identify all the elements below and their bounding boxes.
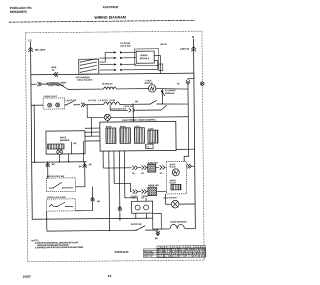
svg-text:5995208875: 5995208875: [10, 10, 28, 14]
svg-text:BK: BK: [89, 164, 93, 166]
svg-text:FGF379CE: FGF379CE: [103, 5, 119, 9]
connector on door switch line: [129, 108, 135, 112]
svg-text:CLOCK: CLOCK: [131, 196, 139, 198]
svg-text:OVEN LAMPS 40W: OVEN LAMPS 40W: [88, 99, 116, 102]
wire selector to connectors: [100, 52, 114, 70]
relay K4: [148, 128, 158, 143]
switch on Y2: [136, 226, 158, 231]
svg-text:OVEN SENSOR: OVEN SENSOR: [170, 222, 186, 224]
svg-text:12: 12: [108, 274, 112, 278]
switch light: [65, 101, 81, 105]
wire valve to N: [186, 165, 194, 167]
wire spark module out: [154, 56, 160, 74]
connector chevron N tap: [186, 80, 190, 84]
relay K3: [134, 126, 144, 143]
switch inside box2: [49, 202, 73, 206]
wire latch out right: [75, 187, 92, 211]
svg-text:BK: BK: [155, 238, 159, 240]
svg-text:BK: BK: [141, 173, 144, 175]
svg-text:MODULE: MODULE: [140, 58, 150, 60]
wire coil to motor: [116, 88, 148, 90]
svg-text:DOOR LOCK SW: DOOR LOCK SW: [47, 176, 65, 178]
svg-text:SW & VALVES: SW & VALVES: [77, 79, 92, 82]
wire lamp line right: [120, 103, 150, 105]
connector P1: [37, 82, 41, 86]
svg-text:BK: BK: [132, 173, 135, 175]
oven light dashed box: [43, 98, 65, 109]
svg-text:MOB: MOB: [51, 67, 57, 69]
junction dots lower bus: [47, 161, 48, 162]
wires below control box: [103, 151, 138, 231]
svg-text:120V W: 120V W: [180, 48, 190, 51]
connector chevron v1: [46, 163, 50, 167]
wire clock drops: [136, 213, 147, 218]
svg-text:BAKE: BAKE: [60, 136, 67, 139]
svg-text:SPARK: SPARK: [140, 54, 148, 57]
connector P2 on bus: [54, 72, 58, 76]
clock box: [132, 201, 153, 213]
ignitor circle: [57, 149, 63, 155]
junction Y2 control drop: [109, 230, 110, 231]
svg-text:BK-W: BK-W: [161, 44, 168, 46]
connector circle junction: [104, 114, 110, 120]
connector chevrons B1: [133, 190, 138, 194]
motor M1 circle: [148, 85, 155, 92]
connector chevrons B2: [141, 190, 146, 194]
wire control left stubs: [85, 118, 100, 141]
bake ignitor hatched square: [148, 164, 156, 172]
svg-text:BK: BK: [97, 201, 101, 203]
switch selector block: [79, 59, 99, 75]
wire Y2 door switch line: [47, 229, 136, 232]
svg-text:P2: P2: [52, 70, 55, 72]
wire clock feed stubs: [138, 198, 147, 202]
wire control right out: [176, 148, 194, 150]
svg-text:316001143: 316001143: [115, 250, 129, 254]
electronic oven control box: [100, 121, 176, 151]
wire door lock feed 1: [47, 162, 49, 178]
connector chevron A3: [160, 165, 165, 169]
broil valve solenoid box: [171, 184, 181, 190]
relay K2: [120, 126, 131, 143]
sensor coils: [170, 224, 184, 229]
bake burner box: [46, 131, 85, 154]
svg-text:DOOR SW: DOOR SW: [131, 224, 143, 226]
svg-text:BK: BK: [74, 143, 78, 145]
svg-text:BK: BK: [79, 166, 83, 168]
coil OL relay: [103, 87, 116, 89]
wire second rail: [33, 105, 36, 162]
lamp DS2: [56, 103, 60, 107]
svg-text:L1: L1: [29, 38, 33, 42]
connector chevron stub: [156, 229, 160, 236]
svg-text:BK: BK: [52, 164, 56, 166]
connector chevron valve out: [187, 164, 191, 168]
wire L1 rail: [31, 41, 153, 220]
wire sensor line: [161, 228, 195, 230]
svg-text:MODULE: MODULE: [165, 93, 175, 95]
svg-text:TO SPARK: TO SPARK: [164, 89, 176, 92]
svg-text:BURNER: BURNER: [60, 140, 70, 142]
svg-text:VALVE: VALVE: [169, 165, 176, 168]
door latch dashed box 2: [47, 199, 76, 211]
connector lamp: [81, 103, 85, 107]
wire control N feed line: [87, 116, 188, 119]
switch inside box1: [49, 182, 73, 188]
wire motor line: [166, 194, 196, 205]
svg-text:LB LBLU DB DBLU MR MAR LG LGRN: LB LBLU DB DBLU MR MAR LG LGRN O OLV: [158, 254, 206, 257]
connector chevrons A2: [142, 166, 147, 170]
connector chevron on lock line: [118, 206, 122, 210]
ignitor hatched box: [48, 144, 65, 149]
svg-text:BK: BK: [135, 101, 139, 103]
wire color code table: [144, 246, 206, 258]
connector chevron v3: [91, 197, 95, 201]
connector frame right mark: [200, 82, 204, 86]
broil ignitor hatched square: [148, 187, 157, 196]
junction lamp/control: [133, 104, 134, 105]
wire motor out: [156, 88, 188, 89]
switch on door switch line right: [161, 105, 167, 110]
coil lamps: [104, 102, 120, 105]
wire line A: [103, 166, 166, 169]
arrow to spark module: [161, 90, 165, 96]
svg-text:LOCK SW: LOCK SW: [124, 106, 134, 108]
connector P4 box: [153, 214, 162, 230]
door lock motor circle: [171, 200, 179, 208]
clock motor circles: [135, 205, 140, 210]
lamp branch wire: [31, 104, 43, 106]
svg-text:OL: OL: [177, 83, 181, 85]
svg-text:2. BURNERS AND IF IN THE CHASS: 2. BURNERS AND IF IN THE CHASSIS IS AN A…: [35, 246, 84, 249]
wire door switch line: [110, 104, 161, 110]
wire relay branch: [31, 83, 37, 85]
svg-text:LOCK SW: LOCK SW: [120, 46, 131, 48]
connector P3 box: [146, 144, 154, 149]
switch door lock: [150, 88, 188, 104]
junction box2/Y1: [46, 218, 47, 219]
door lock switch dashed box 1: [46, 178, 75, 192]
lamp DS1: [48, 103, 52, 107]
wire to coils: [86, 104, 104, 106]
wire N rail: [194, 39, 196, 229]
svg-text:07/97: 07/97: [23, 275, 31, 279]
svg-text:OL RELAY: OL RELAY: [102, 82, 113, 85]
wire right riser: [183, 85, 188, 162]
svg-text:BROIL IGN: BROIL IGN: [148, 185, 159, 187]
svg-text:N: N: [192, 35, 194, 39]
junction second rail: [34, 105, 35, 106]
connector L1 chevrons: [28, 47, 33, 52]
svg-text:WIRING DIAGRAM: WIRING DIAGRAM: [94, 15, 126, 19]
wire lamp line drop to N feed: [86, 105, 88, 118]
wire line B: [130, 190, 166, 192]
wire box2 to Y2: [46, 211, 48, 231]
connector N chevrons: [191, 47, 196, 52]
component small box by spark module: [159, 64, 163, 71]
wire N tap down: [188, 73, 194, 80]
svg-text:GND SYM: GND SYM: [144, 256, 153, 258]
header rule: [9, 20, 195, 22]
connector pin pairs: [114, 51, 124, 71]
svg-text:BK 120V: BK 120V: [35, 49, 46, 52]
wire top bus: [31, 73, 194, 75]
svg-text:BK: BK: [160, 173, 163, 175]
wire bake internals: [59, 141, 83, 162]
bake valve solenoid circle: [172, 169, 179, 176]
relay K1: [106, 125, 116, 143]
wire pins to spark module: [123, 52, 158, 70]
wire door lock feed 2: [75, 162, 85, 187]
svg-text:TIMER: TIMER: [142, 196, 149, 198]
frame border: [25, 31, 204, 262]
wire control feeds: [108, 104, 134, 122]
wire and switch to relay line: [42, 84, 104, 90]
svg-text:LOCK MOTOR: LOCK MOTOR: [163, 197, 177, 199]
connector chevrons A1: [132, 166, 137, 170]
connector chevron v2: [83, 164, 87, 168]
gas valve dashed box: [166, 161, 186, 194]
wire lower bus: [32, 161, 87, 164]
spark module U1: [135, 49, 159, 66]
